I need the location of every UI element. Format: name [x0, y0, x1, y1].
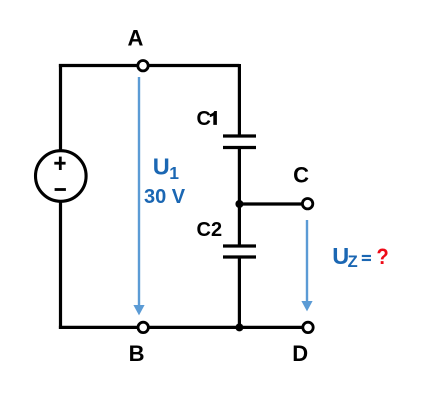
svg-text:B: B — [129, 341, 145, 366]
svg-text:?: ? — [376, 244, 388, 269]
svg-text:C: C — [293, 163, 309, 188]
svg-text:1: 1 — [169, 163, 179, 183]
svg-text:U: U — [153, 154, 170, 180]
svg-text:C2: C2 — [197, 219, 223, 241]
svg-text:C: C — [197, 108, 211, 130]
svg-text:A: A — [128, 25, 144, 50]
svg-text:30 V: 30 V — [144, 186, 186, 208]
svg-text:D: D — [292, 341, 308, 366]
svg-text:Z: Z — [348, 253, 358, 271]
